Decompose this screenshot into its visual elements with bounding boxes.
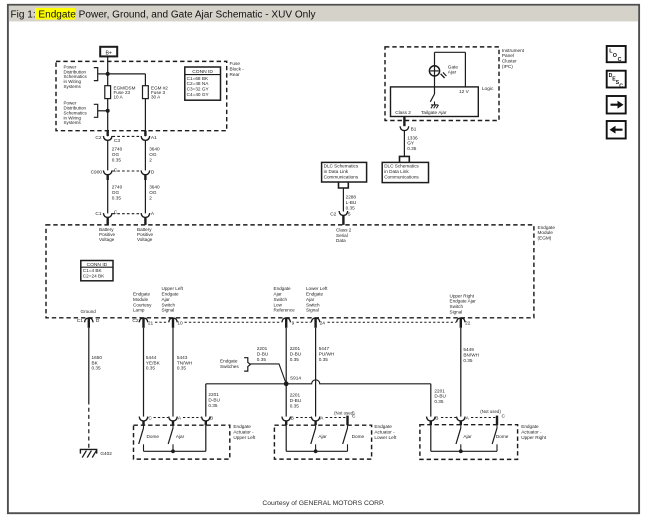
pin B upper right actuator: [427, 417, 436, 421]
svg-text:Dome: Dome: [147, 434, 160, 439]
brace endgate switches: [244, 358, 250, 371]
rail upper right actuator: [431, 450, 497, 452]
DLC schematics box left: [322, 162, 367, 182]
splice S914: [284, 381, 289, 386]
connector C900 pin C: [103, 170, 112, 174]
ajar switch upper right: [460, 425, 462, 428]
tie line C2-C3 connector row: [113, 135, 141, 137]
connector C1 pin C at EGM: [103, 213, 112, 217]
wire pin B upper left to rail: [205, 425, 207, 451]
wire 2288 L-BU: [342, 188, 344, 212]
wire 12V right leg: [464, 52, 466, 87]
dome switch upper right: [496, 425, 498, 428]
tie line upper right actuator pins A-C: [471, 417, 495, 419]
svg-text:9: 9: [292, 320, 295, 326]
svg-text:C1: C1: [95, 211, 101, 217]
tie line C900 row: [113, 170, 141, 172]
svg-text:C900: C900: [91, 169, 103, 175]
fuse block rear dashed box: [56, 61, 227, 130]
pin A lower left actuator: [311, 417, 320, 421]
connector C1 pin A at EGM: [141, 213, 150, 217]
node fuse feed junction: [106, 72, 110, 76]
rail lower left actuator: [286, 450, 347, 452]
junction ajar lower left: [314, 449, 318, 453]
EGM pin C1-D ground: [85, 318, 94, 322]
fuse EGM #2 Fuse 3: [143, 86, 149, 99]
svg-text:C: C: [352, 413, 356, 419]
tie line C1 row: [113, 213, 141, 215]
svg-text:D: D: [151, 169, 155, 175]
rail upper left actuator: [144, 450, 206, 452]
svg-text:Fig 1: Endgate Power, Ground,: Fig 1: Endgate Power, Ground, and Gate A…: [11, 9, 316, 20]
svg-text:C: C: [502, 413, 506, 419]
svg-text:S914: S914: [290, 376, 301, 381]
ground symbol inside logic: [431, 102, 439, 109]
wire lamp to logic box: [434, 76, 436, 94]
svg-text:Ajar: Ajar: [318, 434, 327, 439]
connector C2 pin of fuse block: [106, 131, 108, 136]
fuse EGM/DSM Fuse 23: [105, 86, 111, 99]
connector C2 pin 5 at EGM top: [339, 211, 348, 215]
junction ajar upper right: [459, 449, 463, 453]
svg-text:O: O: [613, 53, 617, 59]
button arrow right: [607, 96, 626, 114]
svg-text:12 V: 12 V: [459, 89, 470, 95]
wire 1336 GY: [403, 131, 405, 157]
svg-text:Ground: Ground: [81, 309, 97, 314]
junction ajar upper left: [171, 449, 175, 453]
wire B+ to fuse block: [107, 57, 109, 86]
svg-text:Ajar: Ajar: [176, 434, 185, 439]
svg-text:C2: C2: [95, 135, 101, 141]
instrument panel cluster dashed box: [385, 47, 499, 121]
svg-text:Dome: Dome: [496, 434, 509, 439]
tie line upper right actuator pins B-A: [441, 417, 456, 419]
button arrow left: [607, 121, 626, 139]
DLC schematics box right: [382, 162, 428, 182]
svg-text:C2: C2: [330, 211, 336, 217]
wire 3640 lower segment: [144, 180, 146, 213]
battery feed B+ terminal: [100, 47, 117, 57]
svg-text:C: C: [114, 209, 118, 215]
wire pin B upper right to rail: [430, 425, 432, 451]
wire lamp left leg upper: [434, 52, 436, 66]
pin A upper left actuator: [169, 417, 178, 421]
wire 2201 to upper left actuator: [205, 384, 207, 417]
svg-text:CONN ID: CONN ID: [87, 262, 108, 268]
button LOC: [607, 46, 626, 63]
wire fuse 23 to C2: [107, 99, 109, 137]
svg-text:C3: C3: [114, 138, 120, 144]
wire fuse 3 to A1: [144, 99, 146, 137]
svg-text:Ajar: Ajar: [463, 434, 472, 439]
bracket below DLC box left: [339, 182, 349, 188]
conn id table EGM: [81, 261, 113, 281]
ground G402 symbol: [80, 449, 98, 457]
svg-text:C1=68 BKC2=48 NAC3=32 GYC4=40: C1=68 BKC2=48 NAC3=32 GYC4=40 GY: [187, 76, 210, 97]
wire 5443 TN/WH: [172, 328, 174, 417]
wire 2201 to lower left actuator: [285, 384, 287, 417]
EGM pin 22: [457, 318, 466, 322]
pin C upper right actuator not used: [496, 416, 498, 426]
actuator upper right dashed box: [420, 425, 518, 460]
dome switch lower left: [347, 425, 349, 428]
EGM pin 10: [169, 318, 178, 322]
wire lamp top rail: [435, 51, 466, 53]
indicator lamp gate ajar: [429, 66, 446, 78]
svg-text:5: 5: [348, 211, 351, 217]
svg-text:22: 22: [465, 320, 471, 326]
tie line lower left actuator pins A-C: [326, 417, 346, 419]
EGM pin C2-21: [139, 318, 148, 322]
conn id table fuse block: [185, 67, 221, 100]
wire 2740 upper segment: [107, 140, 109, 170]
svg-text:Logic: Logic: [482, 86, 494, 92]
ajar switch upper left: [172, 425, 174, 428]
svg-text:21: 21: [148, 320, 154, 326]
bracket lower power distribution: [94, 104, 98, 117]
svg-text:A1: A1: [151, 135, 157, 141]
tie line upper left actuator pins C-A: [154, 417, 169, 419]
tie line lower left actuator pins B-A: [296, 417, 311, 419]
wire 3640 upper segment: [144, 140, 146, 170]
svg-text:B1: B1: [411, 126, 417, 131]
tie line EGM bottom pins 21-10: [155, 321, 168, 323]
switch tailgate ajar inside logic: [430, 94, 434, 102]
svg-text:CONN ID: CONN ID: [192, 69, 213, 75]
svg-text:B: B: [291, 416, 294, 422]
wire 2740 lower segment: [107, 180, 109, 213]
wire 5449 BN/WH: [460, 328, 462, 417]
wire 5447 PU/WH: [315, 328, 317, 417]
svg-text:B: B: [210, 416, 213, 422]
wire branch to fuse 2: [108, 73, 146, 75]
svg-text:Courtesy of GENERAL MOTORS COR: Courtesy of GENERAL MOTORS CORP.: [262, 500, 384, 507]
svg-text:Class 2: Class 2: [395, 110, 411, 115]
svg-text:C1: C1: [77, 318, 83, 324]
wire endgate switches to S914: [250, 364, 286, 384]
tie line upper left actuator pins A-B: [183, 417, 201, 419]
svg-text:C: C: [619, 83, 623, 89]
tie line EGM bottom pins 24-22: [328, 321, 457, 323]
svg-text:D: D: [96, 318, 100, 324]
svg-text:Tailgate Ajar: Tailgate Ajar: [421, 110, 447, 115]
wire pin B lower left to rail: [285, 425, 287, 451]
wire 5444 YE/BK: [143, 328, 145, 417]
EGM pin 24: [311, 318, 320, 322]
title search highlight: [35, 8, 75, 20]
actuator upper left dashed box: [134, 425, 230, 459]
connector C900 pin D: [141, 170, 150, 174]
actuator lower left dashed box: [274, 425, 371, 459]
svg-text:B+: B+: [105, 50, 112, 56]
tie line EGM bottom pins 10-9: [185, 321, 282, 323]
wire 2201 from pin 9: [285, 328, 287, 384]
ajar switch lower left: [315, 425, 317, 428]
pin B upper left actuator: [202, 417, 211, 421]
button DESC: [607, 71, 626, 90]
wire lower bracket to fuse wire: [98, 110, 108, 112]
wire ground dashed section: [88, 401, 90, 449]
bracket into DLC box right: [400, 156, 410, 162]
wire 2201 to upper right actuator: [430, 384, 432, 417]
svg-text:C2: C2: [132, 318, 138, 324]
wire splice bus left: [206, 383, 286, 385]
svg-text:C: C: [114, 168, 118, 174]
pin C upper left actuator: [139, 417, 148, 421]
endgate module dashed box: [46, 225, 534, 318]
svg-text:24: 24: [320, 320, 326, 326]
connector B1: [403, 117, 405, 126]
svg-text:EndgateSwitches: EndgateSwitches: [220, 359, 239, 369]
title bar: [9, 6, 638, 22]
svg-text:10: 10: [177, 320, 183, 326]
svg-text:(Not used): (Not used): [480, 409, 501, 414]
pin C lower left actuator not used: [346, 416, 348, 426]
connector C3 pin A1 of fuse block: [144, 131, 146, 136]
pin B lower left actuator: [282, 417, 291, 421]
svg-text:G402: G402: [100, 451, 112, 456]
bracket upper power distribution: [94, 68, 98, 81]
wire 1650 BK ground: [88, 328, 90, 401]
svg-text:BatteryPositiveVoltage: BatteryPositiveVoltage: [99, 227, 116, 242]
tie line EGM bottom pins 9-24: [297, 321, 311, 323]
EGM pin 9: [282, 318, 291, 322]
svg-text:C: C: [618, 57, 622, 63]
svg-text:C: C: [148, 416, 152, 422]
wire bracket to node: [98, 73, 108, 75]
pin A upper right actuator: [457, 417, 466, 421]
svg-text:BatteryPositiveVoltage: BatteryPositiveVoltage: [137, 227, 154, 242]
node lower tap: [106, 109, 110, 113]
wire splice bus right with hop over 5447: [286, 380, 431, 384]
logic box: [391, 87, 479, 117]
svg-text:B: B: [435, 416, 438, 422]
dome switch upper left: [143, 425, 145, 428]
svg-text:Dome: Dome: [352, 434, 365, 439]
